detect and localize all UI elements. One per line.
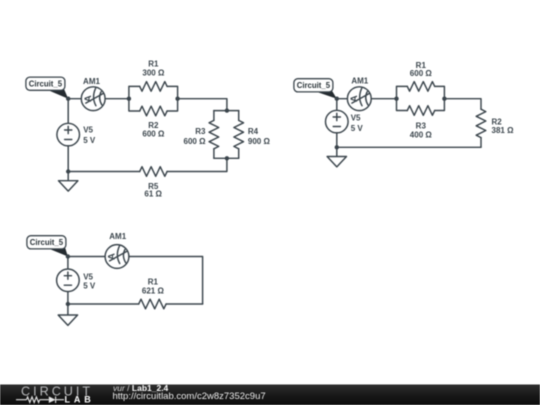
svg-text:600 Ω: 600 Ω (142, 130, 165, 139)
wire R5 to ground rail (68, 171, 140, 173)
svg-text:R4: R4 (248, 127, 259, 136)
node junction left of R1||R2 (127, 97, 131, 101)
wire to R2 (c2) (444, 99, 481, 110)
node A junction (circuit 1) (66, 97, 70, 101)
svg-text:AM1: AM1 (109, 232, 126, 241)
svg-text:LAB: LAB (65, 395, 95, 405)
svg-text:5 V: 5 V (351, 124, 364, 133)
resistor R4 (900 ohm, circuit 1) (238, 111, 240, 121)
svg-text:600 Ω: 600 Ω (184, 137, 207, 146)
node junction at ground (circuit 3) (66, 302, 70, 306)
wire left branch stub R1/R2 (129, 86, 140, 111)
resistor R2 (600 ohm, circuit 1) (140, 106, 167, 116)
node junction right of R1||R3 (c2) (442, 97, 446, 101)
node junction top of R3||R4 (225, 108, 229, 112)
svg-text:R3: R3 (416, 122, 427, 131)
ammeter AM1 (circuit 3) (105, 245, 129, 269)
wire node A down to V5 (67, 99, 69, 124)
node junction left of R1||R3 (c2) (394, 97, 398, 101)
svg-text:61 Ω: 61 Ω (144, 190, 162, 199)
svg-text:R3: R3 (195, 127, 206, 136)
wire V5 to bottom node (c2) (336, 133, 338, 147)
node junction right of R1||R2 (175, 97, 179, 101)
svg-text:5 V: 5 V (83, 282, 96, 291)
svg-text:Circuit_5: Circuit_5 (297, 81, 331, 90)
voltage source V5 (circuit 2) (326, 110, 349, 133)
node junction bottom of R3||R4 (225, 156, 229, 160)
svg-text:300 Ω: 300 Ω (142, 69, 165, 78)
wire right branch stub R1/R3 (c2) (435, 86, 445, 110)
wire top rail R3/R4 (214, 110, 239, 112)
wire node to ammeter (c2) (337, 98, 348, 100)
resistor R1 (600 ohm, circuit 2) (407, 82, 434, 92)
wire node down to V5 (c2) (336, 99, 338, 111)
svg-text:Circuit_5: Circuit_5 (29, 80, 63, 89)
ammeter AM1 (circuit 2) (347, 87, 371, 111)
resistor R5 (61 ohm, circuit 1) (140, 167, 167, 177)
wire bottom rail left of R1 (c3) (68, 303, 139, 305)
net flag Circuit_5 (circuit 2) (315, 91, 337, 99)
wire bottom rail right of R1 (c3) (166, 303, 203, 305)
resistor R1 (300 ohm, circuit 1) (140, 82, 167, 92)
voltage source V5 (circuit 1) (57, 123, 80, 146)
ground symbol (circuit 2) (336, 147, 338, 156)
node junction (circuit 3) (66, 254, 70, 258)
node junction at ground (circuit 2) (335, 145, 339, 149)
svg-text:R1: R1 (148, 59, 159, 68)
svg-text:V5: V5 (83, 126, 93, 135)
ground symbol (circuit 1) (67, 172, 69, 181)
net flag Circuit_5 (circuit 3) (48, 248, 68, 256)
resistor R3 (600 ohm, circuit 1) (213, 111, 215, 121)
node junction at ground (circuit 1) (66, 169, 70, 173)
node junction (circuit 2) (335, 97, 339, 101)
svg-text:Circuit_5: Circuit_5 (30, 238, 64, 247)
svg-text:AM1: AM1 (351, 76, 368, 85)
wire node to ammeter (c3) (68, 256, 105, 258)
wire ammeter to right side (c3) (129, 257, 203, 305)
wire bottom rail R3/R4 (214, 157, 239, 159)
wire bottom rail (c2) (337, 146, 481, 148)
wire V5 to bottom node (c3) (67, 292, 69, 304)
resistor R3 (400 ohm, circuit 2) (407, 106, 434, 116)
svg-text:V5: V5 (83, 273, 93, 282)
wire R3/R4 down to R5 rail (167, 158, 227, 171)
ground symbol (circuit 3) (67, 304, 69, 315)
svg-text:AM1: AM1 (83, 77, 100, 86)
wire right branch stub R1/R2 (167, 86, 178, 111)
wire ammeter to parallel block (c2) (371, 98, 396, 100)
svg-text:http://circuitlab.com/c2w8z735: http://circuitlab.com/c2w8z7352c9u7 (113, 391, 266, 402)
ammeter AM1 (circuit 1) (81, 87, 105, 111)
svg-text:600 Ω: 600 Ω (410, 69, 433, 78)
footer bar (0, 385, 540, 405)
voltage source V5 (circuit 3) (57, 269, 80, 292)
svg-text:V5: V5 (351, 114, 361, 123)
svg-text:900 Ω: 900 Ω (248, 137, 271, 146)
wire to R3/R4 block (178, 99, 227, 111)
wire ammeter to parallel block (105, 98, 129, 100)
svg-text:621 Ω: 621 Ω (142, 287, 165, 296)
svg-text:400 Ω: 400 Ω (410, 131, 433, 140)
wire node A to ammeter (68, 98, 81, 100)
wire left branch stub R1/R3 (c2) (397, 86, 408, 110)
wire V5 to bottom node (67, 146, 69, 172)
wire node down to V5 (c3) (67, 257, 69, 269)
svg-text:R1: R1 (148, 278, 159, 287)
svg-text:5 V: 5 V (83, 136, 96, 145)
svg-text:381 Ω: 381 Ω (492, 126, 515, 135)
resistor R1 (621 ohm, circuit 3) (139, 299, 166, 309)
resistor R2 (381 ohm, circuit 2) (476, 109, 486, 137)
CircuitLab logo schematic squiggle (resistor + diode) (16, 396, 64, 403)
net flag Circuit_5 (circuit 1) (47, 90, 68, 99)
